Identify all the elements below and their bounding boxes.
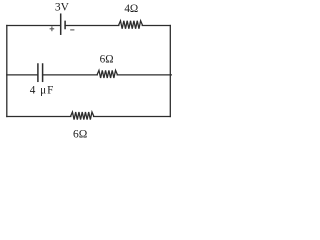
capacitor C1 left plate <box>37 64 39 81</box>
label battery minus sign <box>70 29 74 31</box>
svg-text:4 μF: 4 μF <box>30 84 55 96</box>
svg-text:3V: 3V <box>55 2 70 14</box>
svg-text:6Ω: 6Ω <box>100 53 114 65</box>
label battery plus sign <box>50 26 55 31</box>
wire right rail <box>169 26 171 117</box>
svg-text:4Ω: 4Ω <box>124 3 138 15</box>
battery V1 long plate <box>60 14 62 34</box>
wire top rail right segment <box>142 25 170 27</box>
capacitor C1 right plate <box>42 64 44 81</box>
wire bottom rail right segment <box>94 116 171 118</box>
svg-text:6Ω: 6Ω <box>73 129 87 141</box>
resistor R2 6ohm middle zigzag <box>97 70 117 78</box>
wire top rail left segment <box>7 25 60 27</box>
wire middle rail left segment <box>7 74 38 76</box>
wire bottom rail left segment <box>7 116 71 118</box>
resistor R1 4ohm zigzag <box>119 21 143 29</box>
wire top rail middle segment <box>65 25 119 27</box>
wire middle rail right segment <box>117 74 171 76</box>
wire middle rail centre segment <box>43 74 98 76</box>
resistor R3 6ohm bottom zigzag <box>71 112 94 120</box>
battery V1 short plate <box>64 21 66 28</box>
wire left rail <box>6 26 8 117</box>
